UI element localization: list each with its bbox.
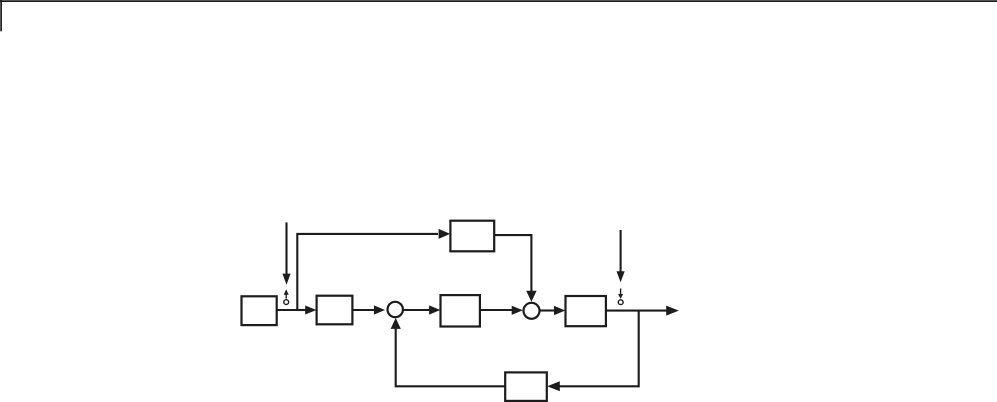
node A circle — [284, 300, 289, 305]
wire S1 to block G3 with arrowhead — [403, 305, 440, 314]
wire block G3 to summing junction S2 with arrowhead — [480, 306, 523, 315]
block G3 (plant 1) — [441, 295, 480, 326]
block H2 (feedback block) — [505, 372, 547, 401]
wire feedforward branch up and right — [297, 234, 438, 309]
small down arrow at node B — [618, 289, 623, 299]
wire feedforward block to summing junction S2 — [494, 235, 536, 302]
block G2 (controller) — [317, 296, 353, 325]
arrow output disturbance down at node B — [617, 230, 625, 282]
small up arrow at node A — [284, 289, 289, 298]
wire block G1 to node A — [277, 309, 298, 311]
block G1 (input block) — [242, 296, 277, 325]
block G4 (plant 2) — [566, 296, 606, 326]
arrow input disturbance down at node A — [282, 222, 290, 284]
summing junction S1 — [388, 302, 403, 317]
wire feedback branch down from output — [559, 311, 639, 387]
wire node A to block G2 with arrowhead — [298, 306, 316, 315]
page border top — [0, 0, 997, 2]
arrowhead into feedforward block — [439, 229, 451, 239]
wire block G4 to output with arrowhead — [606, 306, 679, 316]
node B circle — [618, 300, 623, 305]
wire S2 to block G4 with arrowhead — [540, 306, 566, 315]
wire block G2 to summing junction S1 with arrowhead — [352, 305, 385, 314]
arrowhead into feedback block — [547, 381, 560, 391]
wire feedback block to summing junction S1 — [391, 318, 506, 386]
summing junction S2 — [524, 303, 540, 319]
block H1 (feedforward block) — [450, 221, 494, 252]
